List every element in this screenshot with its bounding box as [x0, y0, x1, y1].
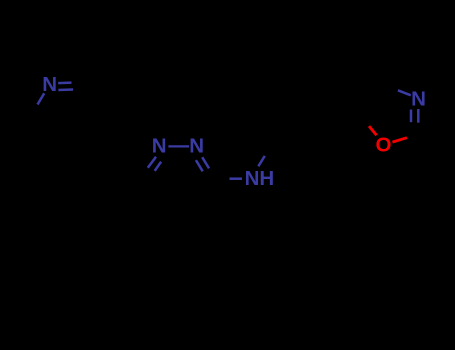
pyridazine N1=C8a main line: [148, 157, 156, 168]
bond NH-CH2 half: [258, 156, 265, 166]
pyridazine N2 label: [189, 134, 204, 157]
bond C3-NH half: [230, 177, 243, 180]
pyridine bond N=C2 main line: [58, 81, 71, 84]
pyridine bond N-C6 half: [38, 93, 45, 104]
oxazole N=C2 second line: [410, 110, 413, 123]
svg-text:N: N: [42, 73, 57, 96]
oxazole N=C2 main line: [417, 109, 420, 123]
pyridazine N2=C3 second line: [196, 160, 203, 171]
svg-text:N: N: [189, 134, 204, 157]
svg-text:N: N: [152, 134, 167, 157]
oxazole O label: [376, 134, 392, 157]
oxazole bond O-C5 half: [369, 126, 377, 135]
amine NH label: [245, 167, 275, 190]
pyridine N label: [42, 73, 57, 96]
pyridazine N1 label: [152, 134, 167, 157]
pyridazine N2=C3 main line: [202, 157, 209, 168]
pyridine bond N=C2 second line: [58, 88, 73, 91]
oxazole N label: [411, 88, 426, 111]
svg-text:O: O: [376, 134, 392, 157]
pyridazine N1=C8a second line: [155, 162, 161, 171]
svg-text:NH: NH: [245, 167, 275, 190]
oxazole bond O-C2 half: [392, 138, 407, 142]
svg-text:N: N: [411, 88, 426, 111]
pyridazine N1-N2 bond: [168, 145, 189, 147]
oxazole bond C4-N half: [398, 90, 411, 95]
